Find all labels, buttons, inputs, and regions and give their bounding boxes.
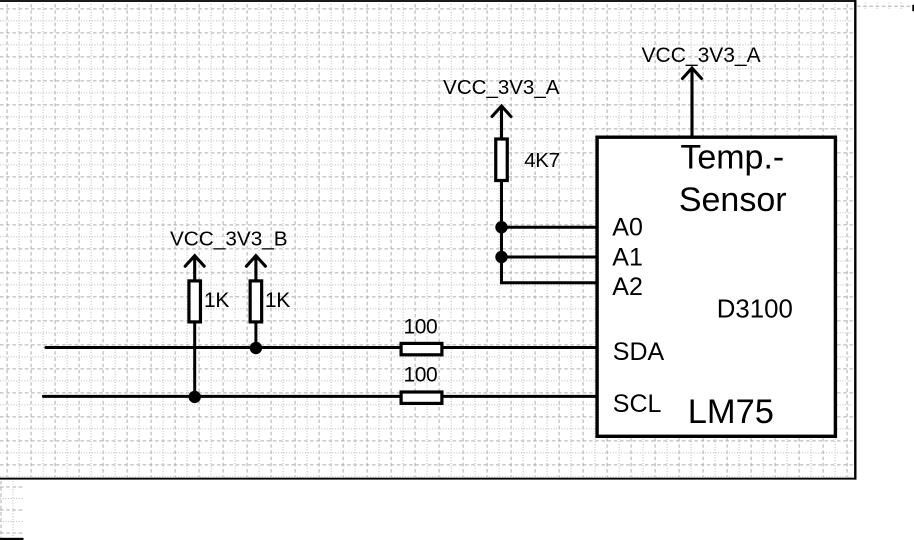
wire SCL horizontal (43, 395, 597, 398)
svg-text:100: 100 (404, 315, 438, 338)
resistor 4K7 (496, 139, 508, 181)
svg-text:SDA: SDA (613, 338, 665, 366)
next sheet frame fragment top-right (912, 5, 914, 11)
junction A1 net (495, 251, 507, 263)
junction A0 net (495, 221, 507, 233)
junction SDA net (250, 342, 262, 354)
wire left 1K down to SCL (193, 323, 196, 397)
svg-text:D3100: D3100 (717, 295, 793, 323)
svg-text:A0: A0 (612, 214, 643, 242)
supply symbol VCC_3V3_A above IC (690, 69, 693, 139)
sheet border bottom (0, 478, 857, 480)
svg-text:A2: A2 (612, 273, 643, 301)
supply symbol VCC_3V3_B right arrow (254, 257, 257, 281)
wire right 1K down to SDA (254, 323, 257, 348)
sheet border top (0, 0, 856, 2)
svg-text:1K: 1K (265, 289, 290, 312)
resistor 100 in SDA line (401, 343, 442, 354)
svg-text:SCL: SCL (613, 390, 662, 418)
svg-text:LM75: LM75 (688, 393, 774, 431)
resistor 1K left (189, 281, 201, 322)
svg-text:100: 100 (404, 364, 438, 387)
svg-text:Sensor: Sensor (679, 181, 787, 219)
resistor 1K right (250, 281, 262, 322)
svg-text:A1: A1 (612, 243, 643, 271)
sheet border right (854, 0, 856, 480)
wire pin A1 (502, 256, 598, 259)
supply symbol VCC_3V3_A above 4K7 (500, 107, 503, 139)
svg-text:4K7: 4K7 (524, 149, 560, 172)
wire 4K7 vertical net to A2 (502, 181, 598, 283)
wire SDA horizontal (46, 346, 597, 349)
next sheet frame fragment bottom-left (0, 538, 24, 540)
IC temperature sensor LM75 D3100 body (597, 137, 835, 436)
svg-text:VCC_3V3_B: VCC_3V3_B (170, 228, 288, 251)
svg-text:VCC_3V3_A: VCC_3V3_A (642, 44, 761, 67)
svg-text:VCC_3V3_A: VCC_3V3_A (443, 76, 560, 99)
wire pin A0 (502, 226, 598, 229)
svg-text:Temp.-: Temp.- (680, 138, 784, 176)
svg-text:1K: 1K (204, 289, 229, 312)
supply symbol VCC_3V3_B left arrow (193, 257, 196, 281)
junction SCL net (189, 391, 201, 403)
resistor 100 in SCL line (401, 392, 442, 403)
